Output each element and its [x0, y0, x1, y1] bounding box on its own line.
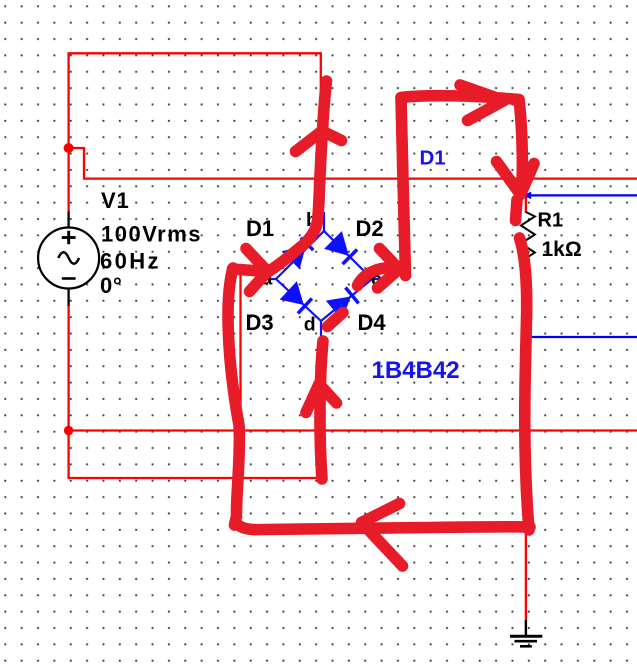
marker stroke: shaft up node-b wire — [319, 81, 327, 200]
bridge edge a-d — [276, 279, 321, 321]
bridge edge a-b — [276, 231, 324, 279]
node junction on V1 minus wire — [64, 426, 73, 435]
marker stroke: up-arrow limbs below d — [306, 384, 337, 413]
diode bridge 1B4B42: diamond edges — [266, 212, 389, 344]
svg-text:D2: D2 — [356, 216, 384, 241]
svg-text:1B4B42: 1B4B42 — [372, 357, 460, 384]
marker stroke: right-arrow limbs at node a — [246, 249, 268, 292]
bridge pin stub d — [320, 321, 322, 344]
ground symbol — [510, 620, 542, 646]
diode D1 (a to b) — [283, 236, 315, 268]
marker stroke: right-arrow limbs on top — [460, 85, 504, 121]
V1 sine symbol — [58, 252, 79, 264]
wire: bottom horizontal to right edge — [69, 429, 637, 431]
AC source V1 circle — [38, 228, 99, 289]
wire: V1 minus down, bottom rail to bridge node d — [69, 305, 321, 478]
V1 plus sign — [62, 231, 76, 244]
marker stroke: right vertical up from c — [401, 98, 406, 276]
wire: step from junction to right-edge output (upper) — [69, 148, 637, 179]
bridge edge b-c — [324, 231, 372, 279]
wire: bridge node a down to bottom rail — [239, 273, 241, 431]
node junction on V1 plus wire — [64, 143, 74, 153]
bridge pin stub a — [266, 278, 276, 280]
blue pin arrow at R1 top — [523, 192, 531, 200]
svg-text:1kΩ: 1kΩ — [542, 238, 582, 261]
bridge pin stub c — [372, 278, 389, 280]
hand-drawn annotation: current loop (red marker) — [228, 81, 534, 566]
marker stroke: down-arrow limbs above R1 — [497, 162, 535, 195]
svg-text:D1: D1 — [246, 216, 274, 241]
bridge pin stub b — [323, 212, 325, 231]
svg-text:V1: V1 — [101, 188, 130, 213]
blue wire: R1 top to right edge — [530, 194, 637, 196]
marker stroke: short segment beside R1 — [516, 200, 518, 221]
V1 bottom terminal — [67, 289, 69, 307]
marker stroke: up-arrow limbs on b shaft — [296, 131, 342, 152]
marker stroke: left vertical of loop — [228, 268, 239, 525]
V1 minus sign — [62, 277, 76, 280]
wire: V1 plus to bridge node b (top loop) — [69, 53, 321, 219]
svg-text:60Hz: 60Hz — [100, 249, 161, 274]
svg-text:0°: 0° — [100, 273, 123, 298]
svg-text:D1: D1 — [420, 147, 446, 170]
wire: R1 bottom to ground — [525, 265, 527, 621]
svg-text:D4: D4 — [358, 310, 387, 335]
svg-text:100Vrms: 100Vrms — [101, 222, 202, 247]
marker stroke: dash over D4 edge — [328, 313, 344, 327]
marker stroke: diagonal over D1 edge — [267, 200, 319, 273]
blue wire: lower tap to right edge — [530, 336, 637, 338]
marker stroke: right-arrow limbs at c — [378, 249, 400, 289]
svg-text:d: d — [304, 314, 316, 336]
svg-text:R1: R1 — [538, 209, 564, 231]
diode D4 (d to c) — [327, 287, 359, 319]
diode D2 (b to c) — [326, 233, 358, 265]
bridge edge d-c — [321, 279, 372, 321]
marker stroke: shaft below node d with up-arrow — [320, 341, 323, 479]
diode D3 (a to d) — [281, 283, 312, 314]
marker stroke: top horizontal of right loop — [401, 96, 519, 100]
marker stroke: right-arrow shaft into node a — [233, 269, 260, 271]
marker stroke: bottom horizontal of loop — [237, 524, 531, 530]
wire: R1 top pin stub — [525, 196, 527, 213]
marker stroke: left-arrow limbs on bottom — [362, 504, 403, 567]
svg-text:D3: D3 — [246, 310, 274, 335]
V1 top terminal — [67, 212, 69, 228]
resistor R1 zigzag — [521, 212, 535, 272]
marker stroke: right vertical down to R1 with arrow — [519, 100, 522, 185]
marker stroke: long right vertical to bottom — [520, 238, 530, 530]
marker stroke: curve through node c — [358, 267, 397, 285]
